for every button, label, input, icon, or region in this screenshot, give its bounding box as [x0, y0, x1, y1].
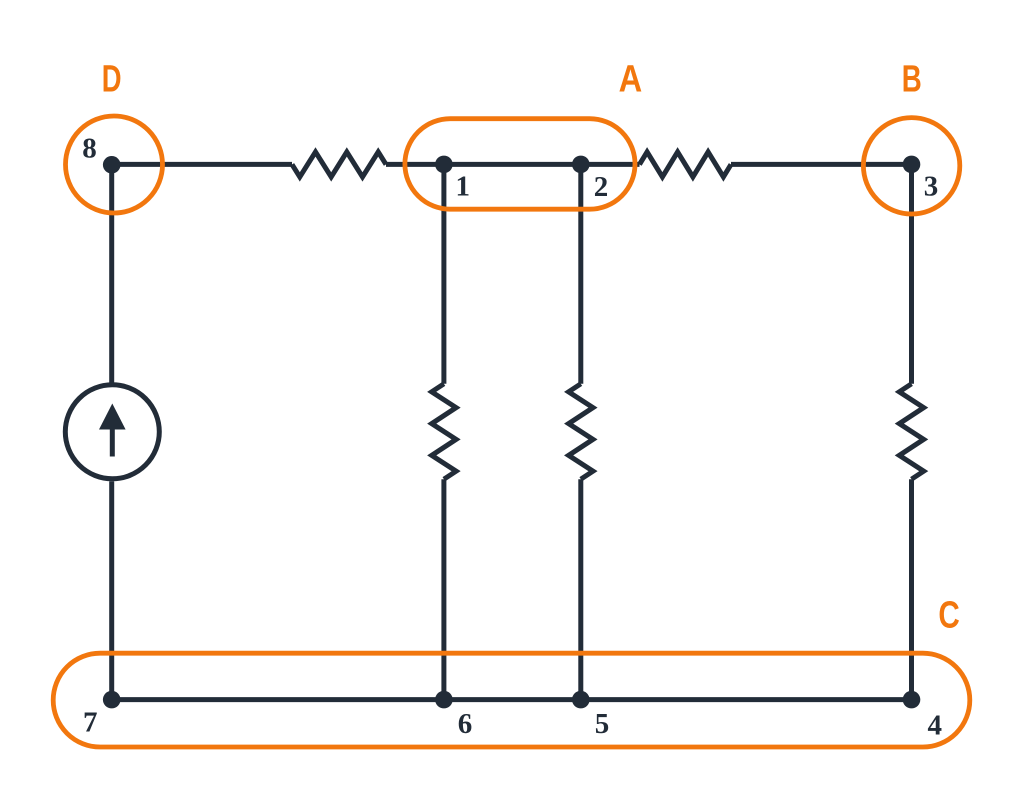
- svg-text:4: 4: [928, 710, 943, 742]
- svg-text:6: 6: [458, 708, 473, 740]
- wire current source I1 to node 7: [109, 481, 114, 699]
- svg-text:1: 1: [455, 171, 470, 203]
- wire node 1 to node 2: [444, 162, 581, 167]
- supernode loop D around node 8: [66, 116, 163, 213]
- wire node 7 to node 6: [112, 697, 444, 702]
- current source I1 arrow shaft: [110, 426, 115, 457]
- svg-text:C: C: [938, 594, 959, 636]
- svg-text:D: D: [102, 59, 122, 101]
- svg-text:B: B: [902, 59, 922, 101]
- supernode loop C around nodes 7 6 5 4: [53, 653, 970, 747]
- wire node 3 down to resistor R5: [909, 164, 914, 383]
- wire resistor R2 to node 3: [731, 162, 912, 167]
- node 3 junction dot: [903, 156, 921, 174]
- wire resistor R5 to node 4: [909, 479, 914, 699]
- wire node8 to resistor R1: [112, 162, 292, 167]
- resistor R3 (between node 1 and node 6): [432, 384, 456, 479]
- wire resistor R4 to node 5: [578, 479, 583, 699]
- current source I1 arrow head: [99, 404, 126, 430]
- svg-text:5: 5: [595, 708, 610, 740]
- resistor R4 (between node 2 and node 5): [569, 384, 593, 479]
- wire resistor R3 to node 6: [441, 479, 446, 699]
- wire node 2 down to resistor R4: [578, 164, 583, 383]
- svg-text:2: 2: [594, 171, 609, 203]
- svg-text:8: 8: [82, 132, 97, 164]
- node 2 junction dot: [572, 156, 590, 174]
- wire node 6 to node 5: [444, 697, 581, 702]
- node 4 junction dot: [903, 691, 921, 709]
- supernode loop B around node 3: [863, 118, 959, 214]
- resistor R5 (between node 3 and node 4): [899, 384, 923, 479]
- svg-text:A: A: [619, 59, 643, 101]
- node 7 junction dot: [103, 691, 121, 709]
- node 5 junction dot: [572, 691, 590, 709]
- supernode loop A around nodes 1 and 2: [405, 119, 635, 210]
- node 6 junction dot: [435, 691, 453, 709]
- svg-text:3: 3: [924, 171, 939, 203]
- wire node 8 down to current source I1: [109, 164, 114, 382]
- wire resistor R1 to node 1: [386, 162, 444, 167]
- resistor R2 (between node 2 and node 3): [640, 152, 732, 177]
- current source I1 circle: [65, 385, 159, 479]
- wire node 1 down to resistor R3: [441, 164, 446, 383]
- node 8 junction dot: [103, 156, 121, 174]
- wire node 2 to resistor R2: [581, 162, 640, 167]
- svg-text:7: 7: [83, 706, 98, 738]
- wire node 5 to node 4: [581, 697, 912, 702]
- resistor R1 (between node 8 and node 1): [292, 152, 386, 177]
- node 1 junction dot: [435, 156, 453, 174]
